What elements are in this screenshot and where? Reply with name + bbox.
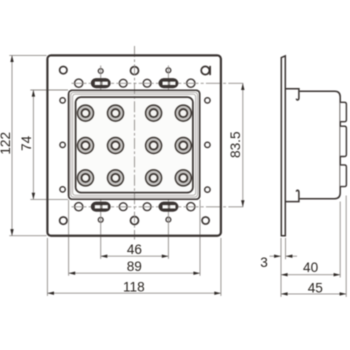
bezel inner gray line 2: [73, 94, 196, 195]
dimension 40 line: [281, 273, 340, 276]
screw hole bottom mid-left: [119, 203, 127, 211]
hole bottom small right: [166, 217, 171, 222]
jack row1 col2: [108, 105, 124, 121]
screw hole bottom far-right: [187, 203, 195, 211]
dimension 3 extension right: [285, 238, 287, 259]
horizontal center line top hole row: [72, 82, 246, 84]
dimension 40 extension right: [339, 202, 341, 278]
side hole left top: [60, 98, 65, 103]
jack row2 col3: [146, 138, 162, 154]
dimension 118 line: [47, 292, 221, 295]
screw hole row bottom far-left: [75, 203, 83, 211]
dimension 74 extension top: [30, 89, 68, 91]
terminal slot top-left: [91, 79, 110, 88]
body bottom clip edge: [285, 190, 299, 201]
faceplate side profile: [281, 56, 285, 236]
slot center line top right: [167, 66, 169, 90]
dimension 74 extension bottom: [30, 198, 68, 200]
svg-text:122: 122: [0, 132, 13, 155]
bezel inner gray line 1: [71, 92, 198, 197]
jack row2 col4: [175, 138, 191, 154]
side hole left middle: [60, 142, 65, 147]
svg-text:3: 3: [260, 255, 268, 270]
body tab 1: [340, 102, 346, 121]
terminal slot top-right (redraw over line): [159, 79, 178, 88]
dimension 45 line: [281, 292, 346, 295]
svg-text:89: 89: [127, 259, 142, 274]
dimension 89 line: [69, 272, 200, 275]
jack row3 col3: [146, 170, 162, 186]
svg-text:83.5: 83.5: [228, 131, 243, 157]
slot center line bottom left (46 extension): [100, 200, 102, 259]
slot center line bottom right (46 extension): [167, 200, 169, 259]
side hole left bottom: [60, 187, 65, 192]
connector sub-panel: [76, 97, 193, 193]
terminal slot bottom-left (redraw over line): [91, 202, 110, 211]
hole top center: [131, 67, 139, 75]
body top clip edge: [285, 89, 299, 100]
vertical center line: [134, 46, 136, 240]
screw hole row2 far-right: [187, 79, 195, 87]
dimension 3 extension left: [280, 238, 282, 297]
terminal slot top-right: [159, 79, 178, 88]
hole bottom center: [131, 217, 139, 225]
hole bottom-right: [202, 217, 209, 224]
dimension 122 extension bottom: [9, 235, 46, 237]
hole top small right: [166, 68, 171, 73]
dimension 46 line: [101, 255, 169, 258]
terminal slot bottom-left: [91, 202, 110, 211]
body outline: [300, 91, 341, 199]
side hole right bottom: [205, 187, 210, 192]
hole bottom-left: [60, 217, 67, 224]
re-stroke bezel outline: [69, 90, 200, 199]
svg-text:40: 40: [303, 260, 319, 275]
screw hole row2 mid-right: [143, 79, 151, 87]
body tab 2: [340, 126, 346, 156]
screw hole bottom mid-right: [143, 203, 151, 211]
jack row3 col1: [78, 170, 94, 186]
jack row1 col1: [78, 105, 94, 121]
svg-text:45: 45: [308, 280, 323, 295]
keyhole top-right (D-hole): [201, 66, 210, 75]
jack row3 col4: [175, 170, 191, 186]
horizontal center line bottom hole row: [72, 206, 246, 208]
faceplate outer plate: [47, 55, 221, 235]
dimension 122 line: [10, 55, 13, 235]
bezel outer frame: [69, 90, 200, 199]
re-stroke outer plate outline over thin lines: [47, 55, 221, 235]
svg-text:74: 74: [19, 135, 34, 151]
svg-text:46: 46: [127, 242, 142, 257]
dimension 118 extension left: [46, 238, 48, 296]
screw hole row2 mid-left: [119, 79, 127, 87]
re-stroke sub-panel outline: [76, 97, 193, 193]
side hole right middle: [205, 142, 210, 147]
RCA jacks grid: [78, 105, 192, 186]
dimension 45 extension right: [345, 196, 347, 297]
terminal slot bottom-right (redraw over line): [159, 202, 178, 211]
dimension 3 arrows: [270, 255, 298, 258]
dimension 89 extension left: [68, 200, 70, 276]
screw hole row2 far-left: [75, 79, 83, 87]
terminal slot bottom-right: [159, 202, 178, 211]
dimension 83.5 line: [241, 83, 244, 206]
dimension 74 line: [32, 90, 35, 199]
jack row3 col2: [108, 170, 124, 186]
slot center line top left: [100, 66, 102, 90]
jack row2 col2: [108, 138, 124, 154]
jack row1 col3: [146, 105, 162, 121]
dimension 89 extension right: [199, 200, 201, 276]
side hole right top: [205, 98, 210, 103]
dimension 118 extension right: [220, 238, 222, 296]
jack row1 col4: [175, 105, 191, 121]
jack row2 col1: [78, 138, 94, 154]
hole top-left: [60, 66, 67, 73]
hole top small left: [98, 69, 103, 74]
hole bottom small left: [98, 217, 103, 222]
body tab 3: [340, 165, 346, 187]
svg-text:118: 118: [123, 279, 145, 294]
terminal slot top-left (redraw over line): [91, 79, 110, 88]
dimension 122 extension top: [9, 54, 46, 56]
